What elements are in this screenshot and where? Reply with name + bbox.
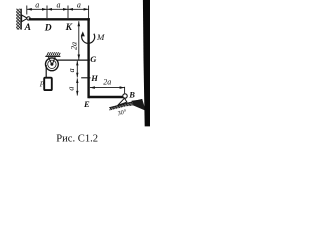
pulley wheel disc [46, 58, 59, 71]
hatched band under incline [110, 100, 142, 111]
svg-text:H: H [90, 73, 98, 83]
svg-text:a: a [66, 87, 75, 91]
pulley inner rim [48, 60, 56, 68]
2a dimension E to B [90, 87, 125, 89]
wall hatching at A [16, 9, 21, 30]
svg-text:A: A [24, 23, 31, 33]
rope down to weight [45, 65, 47, 78]
dimension tick at D [46, 6, 48, 19]
pin circle at B [123, 94, 127, 98]
ceiling line above pulley [45, 55, 60, 57]
roller triangle at B [118, 98, 127, 105]
dimension extension tick at A [26, 6, 28, 15]
pulley hub [50, 63, 53, 66]
svg-text:a: a [35, 0, 39, 9]
pulley wheel outer rim [46, 58, 59, 71]
pin circle at A [27, 17, 30, 20]
pin support triangle at A [22, 15, 28, 22]
svg-text:2a: 2a [69, 42, 78, 50]
svg-text:P: P [39, 80, 45, 88]
svg-text:D: D [44, 24, 52, 34]
moment M arc [82, 34, 95, 44]
svg-text:M: M [96, 32, 105, 42]
svg-text:a: a [77, 0, 81, 9]
moment M arrowhead [81, 31, 85, 36]
weight block [44, 78, 52, 90]
vertical member corner to E [87, 18, 89, 98]
dimension tick at K [67, 6, 69, 19]
bottom member E to B [89, 96, 124, 98]
svg-text:2a: 2a [103, 78, 111, 87]
dark wedge right part of incline hatch [132, 99, 146, 110]
2a vertical dimension beam to G [78, 21, 80, 59]
dimension line a+a+a [27, 8, 89, 10]
arrowheads of top dimension chain [27, 8, 32, 11]
wall face line at A [20, 9, 22, 30]
a dimension G to H [76, 61, 78, 78]
rope from pulley to G [57, 59, 89, 61]
extension tick above B [124, 87, 126, 94]
svg-text:B: B [128, 89, 135, 99]
ceiling hatching [47, 52, 61, 56]
dimension extension tick at corner [88, 6, 90, 19]
inclined surface line [109, 99, 142, 107]
beam A to corner [29, 18, 90, 20]
a dimension H to E [76, 78, 78, 95]
svg-text:a: a [57, 0, 61, 9]
tick at H [81, 77, 90, 79]
black scan bar at right edge [143, 0, 150, 126]
svg-text:Рис. С1.2: Рис. С1.2 [56, 134, 98, 145]
svg-text:G: G [90, 54, 97, 64]
pulley mount bracket [48, 57, 55, 64]
svg-text:K: K [65, 23, 73, 33]
svg-text:E: E [83, 99, 90, 109]
svg-text:a: a [67, 68, 76, 72]
